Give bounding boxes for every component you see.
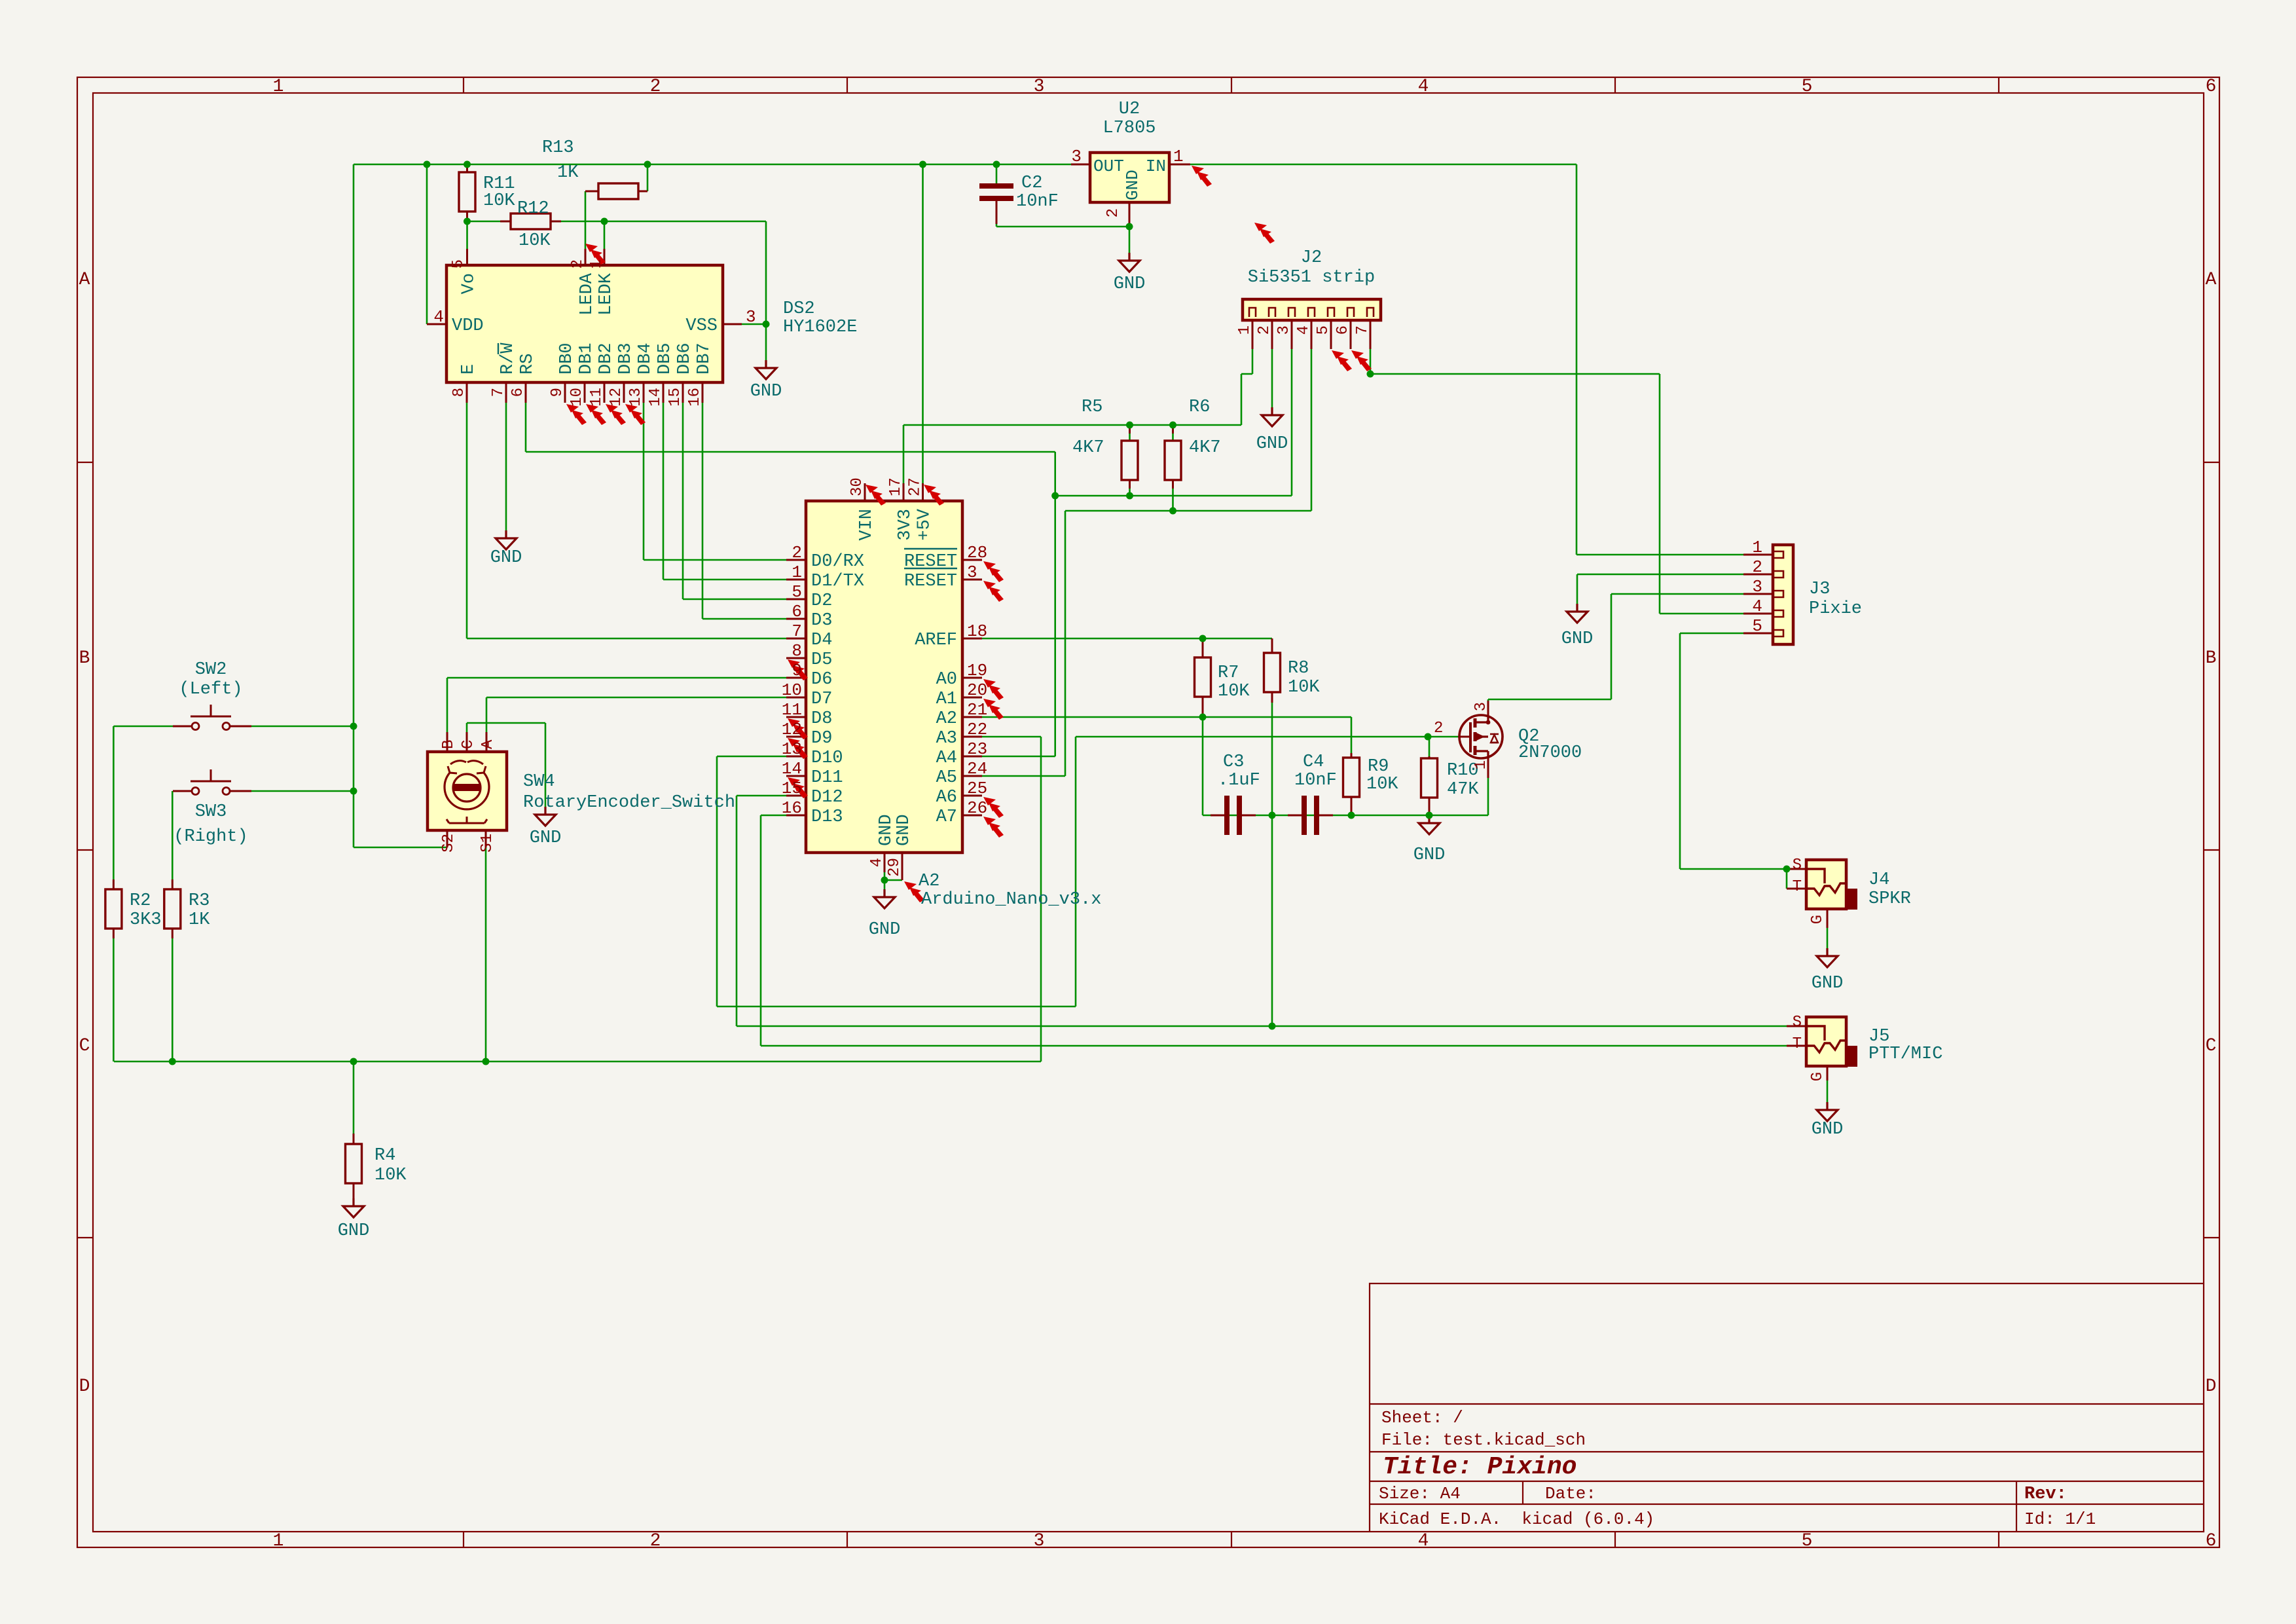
svg-text:1K: 1K bbox=[557, 163, 579, 183]
svg-text:D: D bbox=[79, 1376, 90, 1397]
svg-text:SW4: SW4 bbox=[523, 772, 555, 792]
svg-text:1: 1 bbox=[792, 563, 802, 582]
svg-text:DS2: DS2 bbox=[783, 299, 815, 319]
svg-text:2: 2 bbox=[1256, 325, 1273, 335]
svg-text:C3: C3 bbox=[1223, 752, 1244, 772]
svg-text:16: 16 bbox=[782, 798, 802, 818]
svg-text:KiCad E.D.A. kicad (6.0.4): KiCad E.D.A. kicad (6.0.4) bbox=[1379, 1509, 1654, 1529]
svg-text:3V3: 3V3 bbox=[896, 509, 915, 541]
svg-text:DB4: DB4 bbox=[636, 342, 655, 375]
svg-text:6: 6 bbox=[2206, 77, 2217, 97]
svg-text:+5V: +5V bbox=[915, 508, 935, 540]
svg-text:C: C bbox=[79, 1036, 90, 1056]
svg-text:13: 13 bbox=[782, 739, 802, 759]
svg-text:GND: GND bbox=[338, 1221, 370, 1241]
svg-text:DB5: DB5 bbox=[655, 342, 675, 375]
svg-text:A3: A3 bbox=[936, 729, 957, 748]
svg-text:11: 11 bbox=[782, 700, 802, 720]
svg-text:10nF: 10nF bbox=[1294, 771, 1337, 790]
svg-text:.1uF: .1uF bbox=[1218, 771, 1260, 790]
svg-text:30: 30 bbox=[848, 477, 866, 496]
svg-text:A5: A5 bbox=[936, 768, 957, 788]
svg-text:4: 4 bbox=[1418, 1531, 1429, 1551]
svg-text:6: 6 bbox=[2206, 1531, 2217, 1551]
svg-text:GND: GND bbox=[1123, 170, 1142, 200]
svg-text:3: 3 bbox=[1752, 577, 1762, 597]
svg-text:12: 12 bbox=[782, 720, 802, 739]
svg-text:C4: C4 bbox=[1303, 752, 1324, 772]
svg-text:R3: R3 bbox=[189, 891, 210, 911]
svg-text:A0: A0 bbox=[936, 670, 957, 690]
svg-text:Si5351 strip: Si5351 strip bbox=[1248, 268, 1375, 287]
svg-text:1: 1 bbox=[1472, 760, 1490, 769]
svg-text:PTT/MIC: PTT/MIC bbox=[1868, 1044, 1942, 1064]
svg-text:4: 4 bbox=[1418, 77, 1429, 97]
svg-text:Id: 1/1: Id: 1/1 bbox=[2024, 1509, 2096, 1529]
svg-text:3: 3 bbox=[1034, 1531, 1045, 1551]
svg-text:27: 27 bbox=[907, 477, 924, 496]
svg-text:A7: A7 bbox=[936, 807, 957, 827]
svg-text:IN: IN bbox=[1146, 157, 1166, 176]
svg-text:2: 2 bbox=[569, 259, 587, 268]
svg-text:10K: 10K bbox=[519, 231, 551, 251]
svg-text:A6: A6 bbox=[936, 788, 957, 807]
svg-text:Arduino_Nano_v3.x: Arduino_Nano_v3.x bbox=[921, 890, 1101, 910]
svg-text:GND: GND bbox=[877, 814, 896, 846]
svg-text:D6: D6 bbox=[811, 670, 832, 690]
svg-text:File: test.kicad_sch: File: test.kicad_sch bbox=[1381, 1430, 1586, 1450]
svg-text:J4: J4 bbox=[1868, 870, 1889, 890]
svg-text:C: C bbox=[460, 740, 477, 749]
svg-text:22: 22 bbox=[967, 720, 987, 739]
svg-text:D13: D13 bbox=[811, 807, 843, 827]
svg-text:5: 5 bbox=[1802, 77, 1813, 97]
svg-text:A: A bbox=[2206, 270, 2217, 290]
svg-text:4K7: 4K7 bbox=[1189, 438, 1221, 458]
svg-text:3: 3 bbox=[1071, 147, 1082, 166]
svg-text:DB6: DB6 bbox=[675, 342, 695, 375]
svg-text:10K: 10K bbox=[1366, 775, 1398, 794]
svg-text:10K: 10K bbox=[483, 191, 515, 211]
svg-text:4: 4 bbox=[1752, 597, 1762, 616]
svg-text:3K3: 3K3 bbox=[130, 910, 162, 930]
svg-text:19: 19 bbox=[967, 661, 987, 680]
svg-text:2: 2 bbox=[1752, 557, 1762, 577]
svg-text:D5: D5 bbox=[811, 650, 832, 670]
svg-text:12: 12 bbox=[608, 388, 625, 407]
svg-text:5: 5 bbox=[1802, 1531, 1813, 1551]
svg-text:3: 3 bbox=[1472, 702, 1490, 711]
svg-text:RotaryEncoder_Switch: RotaryEncoder_Switch bbox=[523, 793, 735, 813]
svg-text:GND: GND bbox=[530, 828, 562, 848]
svg-text:T: T bbox=[1793, 878, 1802, 896]
svg-text:RS: RS bbox=[518, 354, 538, 375]
svg-text:A: A bbox=[79, 270, 90, 290]
svg-text:GND: GND bbox=[1561, 629, 1594, 649]
svg-text:GND: GND bbox=[1413, 845, 1446, 865]
svg-text:A4: A4 bbox=[936, 748, 957, 768]
svg-text:Title: Pixino: Title: Pixino bbox=[1383, 1453, 1576, 1481]
svg-text:GND: GND bbox=[1812, 1120, 1844, 1139]
svg-text:S: S bbox=[1793, 1014, 1802, 1031]
svg-text:B: B bbox=[2206, 648, 2217, 669]
svg-text:4: 4 bbox=[433, 307, 444, 327]
svg-text:J2: J2 bbox=[1301, 248, 1322, 268]
svg-text:GND: GND bbox=[1256, 434, 1288, 454]
svg-text:D0/RX: D0/RX bbox=[811, 552, 864, 572]
svg-text:B: B bbox=[440, 740, 458, 749]
svg-text:5: 5 bbox=[1315, 325, 1332, 335]
svg-text:15: 15 bbox=[782, 779, 802, 798]
svg-text:2: 2 bbox=[1434, 720, 1443, 737]
svg-text:11: 11 bbox=[588, 388, 606, 407]
svg-text:10: 10 bbox=[782, 680, 802, 700]
svg-text:D10: D10 bbox=[811, 748, 843, 768]
svg-text:LEDA: LEDA bbox=[577, 272, 597, 316]
svg-text:23: 23 bbox=[967, 739, 987, 759]
svg-text:Sheet: /: Sheet: / bbox=[1381, 1408, 1463, 1428]
svg-text:SPKR: SPKR bbox=[1868, 889, 1911, 909]
svg-text:5: 5 bbox=[792, 582, 802, 602]
svg-text:S1: S1 bbox=[479, 834, 496, 853]
svg-text:A2: A2 bbox=[919, 872, 939, 891]
svg-text:6: 6 bbox=[509, 388, 527, 397]
svg-text:R6: R6 bbox=[1189, 397, 1210, 417]
svg-text:3: 3 bbox=[1275, 325, 1293, 335]
svg-text:R8: R8 bbox=[1288, 659, 1309, 678]
svg-text:2N7000: 2N7000 bbox=[1518, 743, 1582, 763]
svg-text:AREF: AREF bbox=[915, 631, 957, 650]
svg-text:GND: GND bbox=[750, 382, 782, 401]
svg-text:15: 15 bbox=[666, 388, 684, 407]
svg-text:DB3: DB3 bbox=[616, 342, 636, 375]
svg-text:DB0: DB0 bbox=[557, 342, 577, 375]
svg-text:T: T bbox=[1793, 1035, 1802, 1053]
svg-text:RESET: RESET bbox=[904, 572, 957, 591]
svg-text:6: 6 bbox=[792, 602, 802, 621]
svg-text:7: 7 bbox=[490, 388, 507, 397]
svg-text:20: 20 bbox=[967, 680, 987, 700]
svg-text:D11: D11 bbox=[811, 768, 843, 788]
svg-text:7: 7 bbox=[1354, 325, 1372, 335]
svg-text:R9: R9 bbox=[1368, 757, 1389, 777]
svg-text:4K7: 4K7 bbox=[1072, 438, 1104, 458]
svg-text:18: 18 bbox=[967, 621, 987, 641]
svg-text:29: 29 bbox=[886, 858, 903, 877]
svg-text:SW2: SW2 bbox=[195, 660, 227, 680]
svg-text:R/W: R/W bbox=[498, 342, 518, 375]
svg-text:D2: D2 bbox=[811, 591, 832, 611]
svg-text:U2: U2 bbox=[1119, 100, 1140, 119]
svg-text:13: 13 bbox=[627, 388, 645, 407]
svg-text:D12: D12 bbox=[811, 788, 843, 807]
svg-text:1: 1 bbox=[1173, 147, 1184, 166]
svg-text:A2: A2 bbox=[936, 709, 957, 729]
svg-text:GND: GND bbox=[869, 920, 901, 940]
svg-text:26: 26 bbox=[967, 798, 987, 818]
svg-text:G: G bbox=[1809, 915, 1827, 924]
svg-text:9: 9 bbox=[549, 388, 566, 397]
svg-text:2: 2 bbox=[650, 77, 661, 97]
svg-text:Vo: Vo bbox=[460, 273, 479, 294]
svg-text:24: 24 bbox=[967, 759, 987, 779]
svg-text:Size: A4: Size: A4 bbox=[1379, 1484, 1461, 1504]
svg-text:GND: GND bbox=[490, 548, 522, 568]
svg-text:OUT: OUT bbox=[1093, 157, 1124, 176]
svg-text:S: S bbox=[1793, 857, 1802, 874]
svg-text:SW3: SW3 bbox=[195, 802, 227, 822]
svg-text:HY1602E: HY1602E bbox=[783, 318, 857, 337]
svg-text:10K: 10K bbox=[1288, 678, 1320, 697]
svg-text:R5: R5 bbox=[1082, 397, 1102, 417]
svg-text:(Left): (Left) bbox=[179, 680, 242, 699]
svg-text:10K: 10K bbox=[374, 1166, 407, 1185]
svg-text:GND: GND bbox=[894, 814, 914, 846]
svg-text:G: G bbox=[1809, 1072, 1827, 1081]
svg-text:C2: C2 bbox=[1021, 174, 1042, 193]
svg-text:1: 1 bbox=[273, 1531, 284, 1551]
svg-text:1: 1 bbox=[1236, 325, 1254, 335]
svg-text:28: 28 bbox=[967, 543, 987, 563]
svg-text:D9: D9 bbox=[811, 729, 832, 748]
svg-text:47K: 47K bbox=[1447, 780, 1479, 800]
svg-text:D4: D4 bbox=[811, 631, 832, 650]
svg-text:DB1: DB1 bbox=[577, 342, 596, 375]
svg-text:2: 2 bbox=[1104, 208, 1122, 217]
svg-text:1K: 1K bbox=[189, 910, 210, 930]
svg-text:D7: D7 bbox=[811, 690, 832, 709]
svg-text:R4: R4 bbox=[374, 1146, 395, 1166]
svg-text:Rev:: Rev: bbox=[2024, 1485, 2067, 1504]
svg-text:10nF: 10nF bbox=[1016, 192, 1059, 212]
svg-text:1: 1 bbox=[1752, 538, 1762, 557]
svg-text:(Right): (Right) bbox=[173, 827, 247, 847]
svg-text:R13: R13 bbox=[542, 138, 574, 158]
svg-text:D8: D8 bbox=[811, 709, 832, 729]
svg-text:R7: R7 bbox=[1218, 663, 1239, 683]
svg-text:E: E bbox=[459, 364, 479, 375]
svg-text:5: 5 bbox=[450, 259, 467, 268]
svg-text:8: 8 bbox=[792, 641, 802, 661]
svg-text:2: 2 bbox=[650, 1531, 661, 1551]
svg-text:6: 6 bbox=[1334, 325, 1352, 335]
svg-text:L7805: L7805 bbox=[1102, 119, 1156, 138]
svg-text:D3: D3 bbox=[811, 611, 832, 631]
svg-text:J3: J3 bbox=[1809, 580, 1830, 599]
svg-text:LEDK: LEDK bbox=[596, 272, 616, 316]
svg-text:R2: R2 bbox=[130, 891, 151, 911]
svg-text:3: 3 bbox=[746, 307, 756, 327]
svg-text:5: 5 bbox=[1752, 616, 1762, 636]
svg-text:VIN: VIN bbox=[857, 509, 877, 541]
svg-text:16: 16 bbox=[686, 388, 704, 407]
svg-text:GND: GND bbox=[1114, 274, 1146, 294]
svg-text:7: 7 bbox=[792, 621, 802, 641]
svg-text:B: B bbox=[79, 648, 90, 669]
svg-text:4: 4 bbox=[868, 858, 886, 867]
svg-text:1: 1 bbox=[273, 77, 284, 97]
svg-text:14: 14 bbox=[647, 388, 665, 407]
svg-text:A1: A1 bbox=[936, 690, 957, 709]
svg-text:1: 1 bbox=[588, 259, 606, 268]
svg-text:A: A bbox=[479, 739, 497, 749]
svg-text:10K: 10K bbox=[1218, 682, 1250, 701]
svg-text:3: 3 bbox=[1034, 77, 1045, 97]
svg-text:J5: J5 bbox=[1868, 1027, 1889, 1046]
svg-text:Pixie: Pixie bbox=[1809, 599, 1862, 619]
svg-text:GND: GND bbox=[1812, 974, 1844, 993]
svg-text:17: 17 bbox=[887, 477, 905, 496]
svg-text:3: 3 bbox=[967, 563, 977, 582]
svg-text:4: 4 bbox=[1295, 325, 1313, 335]
svg-text:8: 8 bbox=[450, 388, 468, 397]
svg-text:D: D bbox=[2206, 1376, 2217, 1397]
svg-text:D1/TX: D1/TX bbox=[811, 572, 864, 591]
svg-text:S2: S2 bbox=[440, 834, 458, 853]
svg-text:VDD: VDD bbox=[452, 316, 484, 336]
svg-text:14: 14 bbox=[782, 759, 802, 779]
svg-text:DB7: DB7 bbox=[695, 342, 714, 375]
svg-text:9: 9 bbox=[792, 661, 802, 680]
svg-text:Date:: Date: bbox=[1545, 1484, 1596, 1504]
svg-text:2: 2 bbox=[792, 543, 802, 563]
svg-text:25: 25 bbox=[967, 779, 987, 798]
svg-text:21: 21 bbox=[967, 700, 987, 720]
svg-text:R12: R12 bbox=[517, 199, 549, 219]
svg-text:DB2: DB2 bbox=[596, 342, 616, 375]
svg-text:C: C bbox=[2206, 1036, 2217, 1056]
svg-text:10: 10 bbox=[568, 388, 586, 407]
svg-text:VSS: VSS bbox=[685, 316, 718, 336]
